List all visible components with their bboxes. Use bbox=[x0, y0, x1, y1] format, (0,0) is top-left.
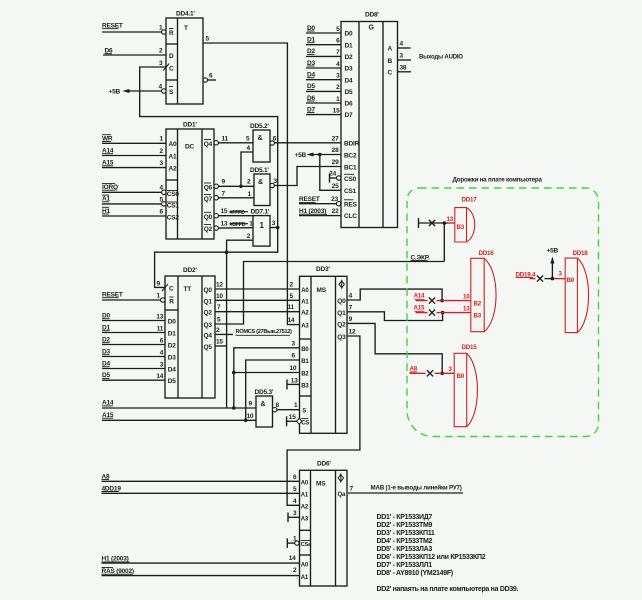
svg-text:DD2' напаять на плате компьюте: DD2' напаять на плате компьютера на DD39… bbox=[377, 586, 519, 593]
svg-text:13: 13 bbox=[221, 221, 228, 228]
wire screen net vertical bbox=[443, 223, 445, 262]
svg-text:B1: B1 bbox=[301, 359, 309, 365]
wire D2 to DD2 pin6 bbox=[102, 337, 165, 344]
wire A14 to DD1 pin2 bbox=[102, 148, 166, 156]
junction B0/A14 bbox=[232, 406, 236, 410]
svg-text:BC2: BC2 bbox=[344, 152, 357, 159]
wire D0 to DD8 pin5 bbox=[306, 26, 341, 33]
svg-text:D4: D4 bbox=[345, 77, 353, 84]
svg-text:D0: D0 bbox=[345, 31, 353, 38]
svg-text:МАВ (1-е выводы линейки РУ7): МАВ (1-е выводы линейки РУ7) bbox=[371, 485, 462, 492]
svg-text:12: 12 bbox=[349, 329, 356, 336]
svg-text:C: C bbox=[388, 69, 393, 76]
svg-text:&: & bbox=[258, 135, 263, 142]
svg-text:TT: TT bbox=[184, 286, 192, 293]
DD6 A2 pin4 number bbox=[293, 498, 297, 505]
svg-text:25: 25 bbox=[332, 183, 339, 190]
wire Q6 to DD5.1 pin2 bbox=[218, 179, 254, 187]
svg-text:DD6' - КР1533КП12 или КР1533КП: DD6' - КР1533КП12 или КР1533КП2 bbox=[377, 554, 486, 561]
svg-text:CS1: CS1 bbox=[344, 188, 357, 195]
DD8 output C bbox=[388, 64, 412, 76]
node D4 label (DD8) bbox=[307, 72, 315, 79]
wire DD3 B1 from A15 net bbox=[246, 353, 300, 421]
wire +5B to DD8 CS1 pin25 bbox=[320, 155, 341, 191]
node RESET label (top) bbox=[102, 23, 123, 30]
node D4 label bbox=[102, 361, 110, 368]
svg-text:B0: B0 bbox=[301, 347, 309, 353]
DD1 pin7 bubble bbox=[214, 196, 218, 200]
svg-text:13: 13 bbox=[156, 313, 163, 320]
svg-text:5: 5 bbox=[217, 317, 221, 324]
wire D1 to DD2 pin11 bbox=[102, 325, 165, 332]
wire DD4.1 C pin3 from clock net bbox=[140, 60, 278, 228]
svg-text:D2: D2 bbox=[168, 343, 176, 350]
wire D7 to DD8 pin15 bbox=[306, 107, 341, 114]
svg-text:Q4: Q4 bbox=[204, 332, 213, 339]
svg-text:CSa: CSa bbox=[301, 542, 313, 548]
DD4.1 pin4 bubble bbox=[162, 89, 166, 93]
svg-text:Q2: Q2 bbox=[204, 310, 213, 317]
DD4.1 pin3 dynamic-edge slash bbox=[163, 64, 169, 71]
svg-text:4: 4 bbox=[160, 349, 164, 356]
DD8 RES bubble bbox=[336, 202, 340, 206]
svg-text:7: 7 bbox=[217, 304, 221, 311]
wire DD3 B0 from A14 net bbox=[234, 340, 300, 408]
wire D0 to DD2 pin13 bbox=[102, 313, 165, 320]
junction Q6/DD5.2pin4 bbox=[239, 185, 243, 189]
DD1 output Q0 label bbox=[204, 212, 213, 221]
svg-text:13: 13 bbox=[463, 305, 470, 312]
chip DD18 (red) bbox=[559, 250, 589, 333]
wire D3 to DD2 pin4 bbox=[102, 349, 165, 356]
svg-text:D4: D4 bbox=[168, 367, 176, 374]
svg-text:1: 1 bbox=[248, 191, 252, 198]
svg-text:Q7: Q7 bbox=[204, 196, 213, 203]
svg-text:2: 2 bbox=[216, 327, 220, 334]
DD1 pin13 bubble bbox=[214, 226, 218, 230]
DD1 pin11 bubble bbox=[214, 141, 218, 145]
wire Q2 to DD7.1 pin1 bbox=[218, 221, 253, 229]
node D7 label (DD8) bbox=[307, 106, 315, 113]
DD2 pin9 number bbox=[157, 280, 161, 287]
svg-text:D3: D3 bbox=[168, 355, 176, 362]
node IORQ label bbox=[102, 184, 118, 192]
svg-text:A0: A0 bbox=[301, 563, 309, 569]
NAND gate DD5.3' bbox=[255, 389, 274, 427]
wire 4DD19 to DD6 A1 pin5 bbox=[102, 486, 300, 494]
DD8 D4 pin label bbox=[345, 77, 353, 84]
chip DD15 (red) bbox=[449, 344, 478, 427]
svg-text:4: 4 bbox=[349, 293, 353, 300]
DD8 CLC pin label bbox=[332, 208, 358, 220]
wire DD3 Q1 to DD16 B3 bbox=[347, 304, 443, 320]
svg-text:3: 3 bbox=[159, 60, 163, 67]
junction +5B/DD18 bbox=[551, 277, 555, 281]
DD8 D5 pin label bbox=[345, 89, 353, 96]
wire D5 to DD8 pin2 bbox=[306, 84, 341, 91]
svg-text:Q0: Q0 bbox=[204, 287, 213, 294]
wire DD2 Q2 to DD3 A2 bbox=[215, 304, 300, 312]
svg-text:6: 6 bbox=[160, 208, 164, 215]
DD1 pin15 bubble bbox=[214, 214, 218, 218]
svg-text:1: 1 bbox=[159, 25, 163, 32]
DD5.3 pin8 number bbox=[276, 402, 280, 409]
legend chip list bbox=[377, 514, 486, 577]
svg-text:4: 4 bbox=[336, 61, 340, 68]
DD16 B3 pin label bbox=[463, 305, 482, 319]
svg-text:9: 9 bbox=[157, 280, 161, 287]
svg-text:9: 9 bbox=[222, 179, 226, 186]
svg-text:3: 3 bbox=[293, 510, 297, 517]
wire DD6 A3 tbar bbox=[288, 510, 300, 522]
svg-text:Q2: Q2 bbox=[337, 321, 346, 328]
node RESET label (DD2) bbox=[102, 292, 123, 299]
svg-text:DD4.1': DD4.1' bbox=[176, 11, 195, 18]
register DD2' body bbox=[165, 267, 215, 398]
svg-text:A14: A14 bbox=[414, 293, 426, 300]
junction B1/A15 bbox=[244, 419, 248, 423]
DD1 output Q7 label bbox=[204, 195, 213, 204]
wire RESET to DD2 R pin1 bbox=[102, 293, 161, 301]
wire D6 to DD8 pin1 bbox=[306, 96, 341, 103]
svg-text:2: 2 bbox=[290, 282, 294, 289]
sound generator DD8' body bbox=[341, 12, 398, 228]
svg-text:ROMCS (27Выв.27512): ROMCS (27Выв.27512) bbox=[236, 329, 293, 335]
node RAS (9002) label bbox=[102, 568, 134, 576]
struck address label on Q2 wire bbox=[230, 222, 249, 228]
junction Q2/A8cut bbox=[440, 372, 444, 376]
svg-text:4: 4 bbox=[247, 145, 251, 152]
node D2 label (DD8) bbox=[307, 48, 315, 55]
svg-text:+5B: +5B bbox=[295, 152, 307, 159]
svg-text:C: C bbox=[169, 66, 174, 73]
svg-text:MS: MS bbox=[316, 481, 326, 488]
node D3 label bbox=[102, 349, 110, 356]
DD8 D2 pin label bbox=[345, 54, 353, 61]
DD1 output Q2 label bbox=[204, 225, 213, 234]
DD8 output A bbox=[388, 41, 411, 53]
node D6 label (DD8) bbox=[307, 95, 315, 102]
node Vyhody AUDIO label bbox=[419, 55, 463, 61]
DD1 output Q6 label bbox=[204, 183, 213, 192]
wire DD2 Q3 to screen net bbox=[215, 262, 444, 325]
svg-text:A0: A0 bbox=[169, 141, 177, 148]
node H1 (2003) label (DD6) bbox=[102, 556, 130, 563]
svg-text:10: 10 bbox=[247, 413, 254, 420]
node D2 label bbox=[102, 337, 110, 344]
DD4.1 pin1 bubble bbox=[162, 30, 166, 34]
multiplexer DD3' body bbox=[300, 266, 348, 433]
svg-text:7: 7 bbox=[336, 49, 340, 56]
struck address label on Q0 wire bbox=[230, 210, 249, 216]
svg-text:D2: D2 bbox=[345, 54, 353, 61]
wire Q4 to DD5.2 pin5 bbox=[218, 135, 253, 143]
svg-text:A1: A1 bbox=[301, 492, 309, 498]
wire DD6 CSa tbar bbox=[287, 536, 297, 548]
svg-text:A2: A2 bbox=[301, 504, 309, 510]
svg-text:2: 2 bbox=[336, 84, 340, 91]
stub DD4.1 pin6 bbox=[208, 73, 217, 81]
DD6 CSa bubble bbox=[295, 541, 299, 545]
DD5.2 output bubble bbox=[270, 141, 274, 145]
junction DD7.1 pin2 / clock net bbox=[225, 250, 229, 254]
svg-text:Q6: Q6 bbox=[204, 185, 213, 192]
NAND gate DD5.1' bbox=[250, 167, 270, 206]
node A15 label (DD1) bbox=[102, 160, 114, 167]
svg-text:T: T bbox=[184, 25, 188, 32]
junction Q0/A14cut bbox=[440, 299, 444, 303]
svg-text:5: 5 bbox=[246, 135, 250, 142]
wire DD2 Q1 to DD3 A1 bbox=[215, 293, 300, 301]
svg-text:DD17: DD17 bbox=[462, 197, 478, 204]
DD8 D0 pin label bbox=[345, 31, 353, 38]
node D3 label (DD8) bbox=[307, 60, 315, 67]
svg-text:DD5.3': DD5.3' bbox=[255, 389, 274, 396]
svg-text:A0: A0 bbox=[301, 288, 309, 294]
node DD19.4 cut label (red) bbox=[516, 271, 537, 278]
wire DD5.1 pin3 to DD8 BC1 bbox=[274, 167, 342, 186]
svg-text:A1: A1 bbox=[169, 154, 177, 161]
svg-text:MS: MS bbox=[317, 287, 327, 294]
svg-text:D5: D5 bbox=[168, 378, 176, 385]
svg-text:RES: RES bbox=[344, 201, 358, 208]
DD8 BC2 pin label bbox=[332, 147, 357, 159]
svg-text:6: 6 bbox=[273, 135, 277, 142]
svg-text:DD5' - КР1533ЛА3: DD5' - КР1533ЛА3 bbox=[377, 546, 433, 553]
wire DD4.1 Q pin5 to DD3 A3 bbox=[203, 36, 300, 325]
svg-text:6: 6 bbox=[293, 474, 297, 481]
wire A1 to DD1 pin5 bbox=[102, 196, 164, 204]
svg-text:BDIR: BDIR bbox=[344, 140, 360, 147]
DD8 D6 pin label bbox=[345, 101, 353, 108]
wire DD8 CS0 tbar bbox=[330, 173, 337, 182]
svg-text:Q4: Q4 bbox=[204, 141, 213, 148]
wire vertical to A14 line bbox=[226, 252, 228, 408]
svg-text:A2: A2 bbox=[169, 166, 177, 173]
svg-text:A1: A1 bbox=[301, 575, 309, 581]
svg-text:1: 1 bbox=[160, 136, 164, 143]
node RESET label (DD8) bbox=[299, 196, 320, 203]
svg-text:&: & bbox=[261, 401, 266, 408]
wire A8 cut stub bbox=[410, 370, 455, 376]
wire H1(2003) to DD6 pin14 bbox=[102, 555, 300, 563]
wire D5 to DD2 pin14 bbox=[102, 373, 165, 380]
svg-text:DD2' - КР1533ТМ9: DD2' - КР1533ТМ9 bbox=[377, 522, 433, 529]
decoder DD1' body bbox=[166, 122, 214, 240]
DD1 pin4 bubble bbox=[162, 190, 166, 194]
svg-text:2: 2 bbox=[247, 179, 251, 186]
node A15 cut label (red) bbox=[414, 305, 426, 312]
svg-text:+5B: +5B bbox=[109, 89, 121, 96]
svg-text:2: 2 bbox=[293, 567, 297, 574]
DD8 output B bbox=[388, 53, 412, 66]
svg-text:15: 15 bbox=[333, 107, 340, 114]
svg-text:11: 11 bbox=[157, 325, 164, 332]
wire D4 to DD8 pin3 bbox=[306, 73, 341, 80]
wire D3 to DD8 pin4 bbox=[306, 61, 341, 68]
junction DD17/screen net bbox=[443, 221, 447, 225]
power +5B (DD18) label/arrow bbox=[547, 247, 559, 278]
svg-text:22: 22 bbox=[332, 208, 339, 215]
svg-text:DD18: DD18 bbox=[573, 250, 589, 257]
svg-text:4: 4 bbox=[400, 41, 404, 48]
svg-text:CS0: CS0 bbox=[167, 191, 180, 198]
wire IORQ to DD1 pin4 bbox=[102, 185, 164, 193]
multiplexer DD6' body bbox=[300, 461, 348, 586]
svg-text:2: 2 bbox=[160, 148, 164, 155]
wire A8 to DD6 A0 pin6 bbox=[102, 474, 300, 482]
DD8 BC1 pin label bbox=[332, 159, 357, 171]
junction Q1/A15cut bbox=[441, 311, 445, 315]
svg-text:A0: A0 bbox=[301, 480, 309, 486]
green dashed board region bbox=[407, 188, 599, 437]
svg-text:A1: A1 bbox=[301, 299, 309, 305]
svg-text:Q5: Q5 bbox=[204, 344, 213, 351]
svg-text:7: 7 bbox=[349, 304, 353, 311]
DD1 pin9 bubble bbox=[214, 184, 218, 188]
svg-text:11: 11 bbox=[222, 135, 229, 142]
svg-text:+5B: +5B bbox=[547, 247, 559, 254]
svg-text:B3: B3 bbox=[457, 224, 465, 231]
svg-text:13: 13 bbox=[447, 216, 454, 223]
node A14 label (DD5.3) bbox=[102, 400, 114, 407]
junction clock net at DD7.1 output bbox=[276, 226, 280, 230]
svg-text:DD15: DD15 bbox=[462, 344, 478, 351]
junction B0/B2 bbox=[232, 371, 236, 375]
svg-text:DD8': DD8' bbox=[365, 12, 379, 19]
svg-text:B0: B0 bbox=[457, 373, 465, 380]
wire DD3 B3 tbar bbox=[287, 377, 300, 389]
svg-text:D: D bbox=[169, 53, 174, 60]
svg-text:2: 2 bbox=[159, 48, 163, 55]
title Dorozhki na plate kompyutera bbox=[453, 176, 543, 183]
node ROMCS label bbox=[236, 329, 293, 335]
svg-text:DD8' - AY8910 (YM2149F): DD8' - AY8910 (YM2149F) bbox=[377, 570, 453, 577]
node A1 label bbox=[102, 195, 110, 203]
svg-text:6: 6 bbox=[336, 38, 340, 45]
svg-text:3: 3 bbox=[160, 361, 164, 368]
svg-text:8: 8 bbox=[276, 402, 280, 409]
svg-text:CS0: CS0 bbox=[344, 176, 357, 183]
node A15 label (DD5.3) bbox=[102, 412, 114, 419]
wire Q7 to DD5.1 pin1 bbox=[218, 190, 254, 198]
svg-text:Q1: Q1 bbox=[204, 298, 213, 305]
wire A14 to DD5.3 pin9 bbox=[102, 401, 256, 409]
node D5 label (DD8) bbox=[307, 83, 315, 90]
wire DD19.4 cut stub bbox=[530, 276, 566, 282]
node D6 label bbox=[105, 48, 113, 55]
svg-text:15: 15 bbox=[221, 208, 228, 215]
wire D1 to DD8 pin6 bbox=[306, 38, 341, 45]
wire DD7.1 pin2 bbox=[227, 233, 253, 252]
junction +5B/BC2 bbox=[318, 153, 322, 157]
svg-text:DD1': DD1' bbox=[183, 122, 197, 129]
svg-text:Q0: Q0 bbox=[337, 298, 346, 305]
svg-text:27: 27 bbox=[332, 135, 339, 142]
svg-text:G: G bbox=[369, 25, 375, 32]
DD2 pin9 dynamic-edge slash bbox=[162, 284, 168, 291]
power +5B (top) label/arrow bbox=[109, 84, 163, 96]
svg-text:5: 5 bbox=[293, 486, 297, 493]
svg-text:10: 10 bbox=[290, 365, 297, 372]
svg-text:B2: B2 bbox=[301, 372, 309, 378]
wire DD5.2 pin6 to DD8 BDIR bbox=[273, 135, 341, 143]
svg-text:29: 29 bbox=[332, 159, 339, 166]
wire cut at DD17 pin13 bbox=[419, 218, 455, 228]
node D1 label bbox=[102, 325, 110, 332]
svg-text:B2: B2 bbox=[474, 300, 482, 307]
DD8 CS1 pin label bbox=[332, 183, 357, 195]
legend note DD2 bbox=[377, 586, 519, 593]
svg-text:4: 4 bbox=[159, 84, 163, 91]
svg-text:3: 3 bbox=[336, 73, 340, 80]
svg-text:14: 14 bbox=[156, 373, 163, 380]
wire A15 to DD1 pin3 bbox=[102, 160, 166, 168]
power +5B (DD8) label/arrow bbox=[295, 152, 342, 159]
node H1 label bbox=[102, 207, 110, 215]
wire D6 to DD4.1 D pin2 bbox=[103, 48, 166, 56]
svg-text:6: 6 bbox=[160, 337, 164, 344]
svg-text:11: 11 bbox=[288, 304, 295, 311]
wire WR to DD1 pin1 bbox=[102, 136, 166, 144]
wire DD3 B2 bbox=[234, 365, 300, 373]
DD8 RES pin label bbox=[331, 196, 357, 208]
wire DD3 S from DD5.3 bbox=[277, 402, 300, 410]
wire H1 to DD1 pin6 bbox=[102, 208, 166, 216]
DD8 CS0 bubble bbox=[337, 176, 341, 180]
svg-text:10: 10 bbox=[216, 293, 223, 300]
wire D4 to DD2 pin3 bbox=[102, 361, 165, 368]
svg-text:Q0: Q0 bbox=[204, 214, 213, 221]
svg-text:R: R bbox=[169, 30, 174, 37]
svg-text:DD5.1': DD5.1' bbox=[250, 167, 269, 174]
svg-text:14: 14 bbox=[288, 317, 295, 324]
wire DD2 Q0 to DD3 A0 bbox=[215, 282, 300, 290]
svg-text:&: & bbox=[258, 179, 263, 186]
node MAB label bbox=[371, 485, 462, 492]
svg-text:CS2: CS2 bbox=[167, 215, 180, 222]
svg-text:DD5.2': DD5.2' bbox=[250, 123, 269, 130]
svg-text:C: C bbox=[169, 286, 174, 293]
svg-text:28: 28 bbox=[332, 147, 339, 154]
svg-text:D7: D7 bbox=[345, 112, 353, 119]
wire RESET to DD8 pin23 bbox=[299, 203, 336, 205]
svg-text:DC: DC bbox=[185, 144, 194, 151]
OR gate DD7.1' bbox=[251, 209, 271, 247]
svg-text:DD4' - КР1533ТМ2: DD4' - КР1533ТМ2 bbox=[377, 538, 433, 545]
svg-text:D3: D3 bbox=[345, 66, 353, 73]
svg-text:1: 1 bbox=[336, 96, 340, 103]
svg-text:Qa: Qa bbox=[338, 492, 346, 498]
node A14 cut label (red) bbox=[414, 293, 426, 300]
DD5.3 output bubble bbox=[273, 408, 277, 412]
svg-text:Выходы AUDIO: Выходы AUDIO bbox=[419, 55, 463, 61]
DD8 D7 pin label bbox=[345, 112, 353, 119]
DD6 tri-state symbol bbox=[338, 473, 343, 482]
svg-text:D1: D1 bbox=[168, 331, 176, 338]
wire H1(2003) to DD8 pin22 bbox=[299, 215, 341, 217]
svg-text:A15: A15 bbox=[414, 305, 426, 312]
node S.EKR label bbox=[411, 255, 430, 262]
svg-text:14: 14 bbox=[289, 555, 296, 562]
svg-text:5: 5 bbox=[336, 26, 340, 33]
svg-text:10: 10 bbox=[463, 293, 470, 300]
svg-text:9: 9 bbox=[249, 401, 253, 408]
svg-text:38: 38 bbox=[400, 64, 407, 71]
node D0 label (DD8) bbox=[307, 25, 315, 32]
DD3 CS diamond bbox=[297, 418, 302, 424]
DD8 D3 pin label bbox=[345, 66, 353, 73]
